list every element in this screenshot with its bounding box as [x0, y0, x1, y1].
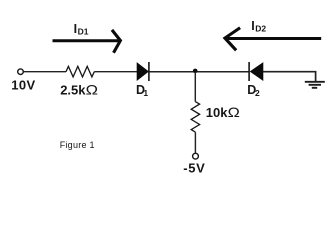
- wire D1 to D2 through node: [150, 71, 249, 73]
- wire node down to R2: [194, 72, 196, 102]
- svg-text:2: 2: [255, 88, 260, 98]
- diode D1: [137, 63, 148, 81]
- svg-text:2.5k: 2.5k: [60, 83, 86, 98]
- svg-text:-5V: -5V: [183, 161, 205, 176]
- resistor R1 2.5k: [66, 66, 94, 77]
- svg-text:1: 1: [143, 88, 148, 98]
- svg-text:Ω: Ω: [86, 82, 98, 98]
- wire R1 to D1: [94, 71, 137, 73]
- current arrow ID2: [225, 29, 321, 50]
- svg-text:D2: D2: [255, 23, 266, 33]
- svg-text:10k: 10k: [206, 105, 228, 120]
- terminal -5V: [193, 153, 199, 159]
- ground: [305, 82, 325, 88]
- current arrow ID1: [53, 31, 121, 51]
- svg-text:I: I: [74, 22, 77, 36]
- terminal 10V: [18, 69, 24, 75]
- wire R2 to terminal: [194, 132, 196, 153]
- diode D2: [248, 62, 250, 81]
- resistor R2 10k: [191, 102, 199, 133]
- junction node: [193, 69, 198, 74]
- svg-text:10V: 10V: [11, 78, 35, 93]
- svg-text:D1: D1: [78, 26, 89, 36]
- wire D2 to ground: [263, 72, 316, 82]
- svg-text:Figure 1: Figure 1: [60, 140, 95, 150]
- svg-text:Ω: Ω: [228, 104, 240, 120]
- wire terminal to R1: [23, 71, 66, 73]
